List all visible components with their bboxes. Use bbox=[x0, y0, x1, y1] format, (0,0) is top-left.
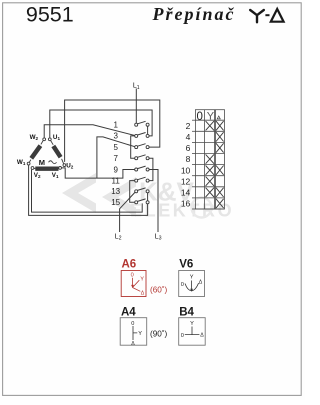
svg-text:A6: A6 bbox=[122, 258, 137, 270]
svg-text:9: 9 bbox=[113, 165, 118, 174]
svg-text:(60˚): (60˚) bbox=[150, 285, 168, 295]
svg-text:U2: U2 bbox=[66, 162, 74, 169]
svg-text:M: M bbox=[39, 158, 45, 167]
svg-text:Y: Y bbox=[138, 331, 142, 337]
svg-text:7: 7 bbox=[113, 154, 118, 163]
svg-text:W1: W1 bbox=[17, 159, 26, 166]
svg-text:2: 2 bbox=[186, 121, 191, 131]
svg-text:10: 10 bbox=[181, 165, 191, 175]
svg-text:U1: U1 bbox=[53, 134, 61, 141]
svg-text:V1: V1 bbox=[52, 172, 59, 179]
svg-text:Y: Y bbox=[140, 276, 144, 282]
svg-text:9551: 9551 bbox=[26, 3, 74, 27]
svg-text:13: 13 bbox=[111, 187, 120, 196]
svg-text:Přepínač: Přepínač bbox=[152, 4, 236, 24]
svg-text:0: 0 bbox=[131, 321, 134, 327]
svg-text:0: 0 bbox=[131, 273, 134, 279]
svg-text:L1: L1 bbox=[133, 83, 140, 91]
svg-text:0: 0 bbox=[197, 111, 203, 123]
svg-text:Δ: Δ bbox=[141, 291, 145, 297]
svg-text:11: 11 bbox=[112, 176, 121, 185]
svg-text:6: 6 bbox=[186, 143, 191, 153]
svg-text:V2: V2 bbox=[34, 172, 41, 179]
svg-text:3: 3 bbox=[113, 132, 118, 141]
svg-text:V6: V6 bbox=[179, 258, 193, 270]
svg-text:Y: Y bbox=[190, 275, 194, 281]
svg-text:A4: A4 bbox=[121, 306, 136, 318]
svg-text:(90˚): (90˚) bbox=[150, 329, 168, 339]
svg-text:Y: Y bbox=[207, 110, 215, 122]
svg-text:0: 0 bbox=[181, 333, 184, 339]
svg-text:B4: B4 bbox=[179, 306, 194, 318]
svg-text:0: 0 bbox=[181, 282, 184, 288]
svg-text:Δ: Δ bbox=[200, 333, 204, 339]
svg-text:Δ: Δ bbox=[199, 280, 203, 286]
svg-text:Δ: Δ bbox=[131, 341, 135, 347]
svg-text:W2: W2 bbox=[30, 134, 39, 141]
svg-text:Y: Y bbox=[190, 321, 194, 327]
svg-text:14: 14 bbox=[181, 188, 191, 198]
svg-text:5: 5 bbox=[113, 143, 118, 152]
svg-text:4: 4 bbox=[186, 132, 191, 142]
svg-text:16: 16 bbox=[181, 199, 191, 209]
svg-text:15: 15 bbox=[111, 198, 120, 207]
svg-text:1: 1 bbox=[113, 121, 118, 130]
svg-text:L2: L2 bbox=[115, 233, 122, 241]
svg-text:12: 12 bbox=[181, 176, 191, 186]
svg-text:8: 8 bbox=[186, 154, 191, 164]
svg-text:L3: L3 bbox=[155, 233, 162, 241]
